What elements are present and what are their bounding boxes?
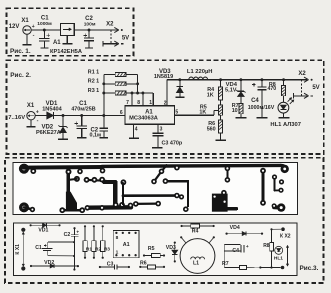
bottom-right thick trace and pads	[274, 205, 281, 209]
wire X1 to C1/A1 (fig.1)	[31, 29, 60, 31]
pad on top trace right	[174, 165, 180, 171]
svg-text:4: 4	[135, 127, 138, 133]
svg-text:1: 1	[149, 100, 152, 106]
horizontal dumbbell trace	[136, 203, 158, 205]
wire X1 to VD1 (fig.2)	[35, 115, 47, 117]
pad and stub right of centre trace	[121, 179, 127, 185]
svg-text:VD1: VD1	[38, 228, 48, 234]
svg-text:C2: C2	[85, 16, 93, 22]
square copper blob	[212, 194, 228, 212]
svg-text:L1 220µH: L1 220µH	[187, 69, 213, 75]
svg-text:К X1: К X1	[15, 244, 21, 255]
regulator A1 КР142ЕН5А (fig.1)	[60, 23, 74, 35]
L-shaped trace middle	[165, 180, 188, 182]
output rail wire L1 to X2	[208, 79, 307, 81]
svg-text:7: 7	[126, 100, 129, 106]
svg-text:0,1м: 0,1м	[89, 132, 100, 138]
diagonal trace	[154, 171, 162, 181]
LED HL1 (layout)	[275, 246, 283, 254]
ground under VD3	[175, 96, 184, 98]
svg-text:R4: R4	[192, 228, 199, 234]
Рис.3 frame	[5, 158, 324, 283]
svg-text:X1: X1	[21, 18, 29, 24]
ground under A1 (fig.1)	[66, 35, 68, 43]
pad top-right big	[281, 165, 289, 173]
svg-text:X1: X1	[27, 103, 35, 109]
svg-text:1K: 1K	[207, 93, 214, 99]
svg-text:К X2: К X2	[280, 234, 291, 240]
ground under VD2	[58, 138, 68, 140]
small L trace right	[274, 177, 276, 191]
svg-text:R8: R8	[263, 243, 270, 249]
svg-text:-: -	[33, 33, 35, 39]
svg-text:Рис. 1.: Рис. 1.	[10, 48, 31, 55]
ground under C2 (fig.1)	[85, 47, 93, 49]
svg-text:X2: X2	[106, 21, 114, 27]
node C2/R-network (fig.2)	[102, 114, 105, 117]
svg-text:X2: X2	[298, 71, 306, 77]
svg-text:HL1 АЛ307: HL1 АЛ307	[270, 122, 301, 128]
wire C4 bracket to R7 (layout)	[223, 244, 225, 267]
svg-text:5: 5	[175, 109, 178, 115]
thick L trace centre	[104, 180, 115, 184]
pad end of top-left trace	[100, 168, 106, 174]
pad X1- bottom-left	[19, 202, 29, 212]
PCB copper layout board	[13, 163, 298, 215]
ground under VD4/R7	[235, 117, 246, 119]
wire pin3 to C3	[157, 124, 159, 133]
svg-text:8: 8	[137, 100, 140, 106]
pads К X1	[21, 228, 25, 232]
svg-text:R5: R5	[148, 246, 155, 252]
svg-text:VD2: VD2	[44, 260, 54, 266]
node R8	[282, 78, 285, 81]
svg-text:470: 470	[267, 86, 276, 92]
svg-text:A1: A1	[53, 40, 61, 46]
op-amp/IC A1 MC34063A	[125, 106, 175, 124]
pad X1+ top-left	[19, 164, 29, 174]
svg-text:100м: 100м	[84, 22, 96, 28]
top copper trace	[24, 165, 102, 170]
wire pin8 stub	[142, 93, 144, 106]
Рис.2 frame	[7, 60, 324, 154]
wire pin4 to ground	[132, 124, 134, 138]
svg-text:VD4: VD4	[230, 225, 240, 231]
svg-text:R6: R6	[140, 260, 147, 266]
wire R3 to pin1 (fig.2)	[126, 92, 153, 94]
small pad near X1-	[30, 207, 35, 212]
ground under C1 (fig.2)	[77, 137, 87, 139]
svg-text:R2 1: R2 1	[88, 79, 99, 85]
left column wire R1-R3 to Vcc node	[103, 75, 105, 116]
right column wire R1-R2	[137, 75, 139, 94]
svg-text:6: 6	[120, 110, 123, 116]
inductor L1 (layout)	[180, 239, 215, 274]
IC A1 (layout)	[113, 230, 139, 257]
capacitor C3 470p	[153, 132, 164, 134]
svg-text:C3 470p: C3 470p	[162, 141, 183, 147]
svg-text:8: 8	[116, 235, 119, 241]
node C4	[260, 78, 263, 81]
ground under R6	[215, 139, 226, 141]
svg-text:КР142ЕН5А: КР142ЕН5А	[50, 49, 82, 55]
node C2 (fig.1)	[88, 29, 91, 32]
pad chain trace middle-left	[85, 180, 106, 181]
pad on vertical trace	[66, 169, 72, 175]
pad below top trace	[77, 169, 83, 175]
svg-text:-: -	[37, 118, 39, 124]
svg-text:C2: C2	[64, 232, 71, 238]
svg-text:A1: A1	[123, 242, 130, 248]
svg-text:10: 10	[232, 108, 238, 114]
svg-text:R1 1: R1 1	[88, 69, 99, 75]
svg-text:560: 560	[207, 126, 216, 132]
svg-text:1N5819: 1N5819	[154, 74, 173, 80]
svg-text:C3: C3	[107, 262, 114, 268]
node VD2	[62, 114, 65, 117]
long horizontal trace middle	[123, 194, 177, 197]
node C1 (fig.1)	[43, 29, 46, 32]
svg-text:R7: R7	[222, 261, 229, 267]
vertical trace from top trace	[66, 168, 69, 197]
bottom-left trace with pads	[62, 209, 82, 212]
svg-text:C4: C4	[251, 98, 259, 104]
svg-text:5V: 5V	[312, 85, 319, 91]
svg-text:A1: A1	[145, 109, 153, 115]
node VD3	[178, 78, 181, 81]
svg-text:12V: 12V	[9, 24, 20, 30]
pad on top trace left	[30, 168, 36, 174]
flare trace bottom	[66, 192, 76, 211]
svg-text:R3: R3	[104, 247, 110, 253]
ground under HL1	[278, 117, 289, 119]
svg-text:1N5404: 1N5404	[42, 106, 62, 112]
ground under X1 (fig.2)	[30, 120, 32, 126]
svg-text:C1: C1	[41, 15, 49, 21]
pad right of vertical trace	[74, 176, 80, 182]
svg-text:P6KE27A: P6KE27A	[36, 130, 61, 136]
wire pin1 stub	[152, 93, 154, 106]
svg-text:7..16V: 7..16V	[8, 115, 25, 121]
pads and wire К X2 (layout)	[281, 227, 285, 231]
resistor R1 (layout)	[83, 241, 87, 252]
lone pad right	[279, 179, 284, 184]
svg-text:C1: C1	[35, 245, 42, 251]
Рис.1 frame	[7, 8, 134, 56]
resistor R3 (layout)	[101, 241, 105, 252]
svg-text:1000м/16V: 1000м/16V	[248, 105, 275, 111]
svg-text:+: +	[36, 110, 39, 116]
svg-text:1000м: 1000м	[37, 21, 52, 27]
wire VD1 to A1 pin6 (fig.2)	[54, 115, 126, 117]
svg-text:1: 1	[116, 250, 119, 256]
svg-text:3: 3	[160, 126, 163, 132]
svg-text:HL1: HL1	[274, 256, 283, 262]
node C1 (fig.2)	[80, 114, 83, 117]
ground under X1 (fig.1)	[26, 34, 28, 44]
svg-text:L1: L1	[193, 260, 199, 266]
junction dots pins 7,8	[131, 92, 134, 95]
svg-text:2: 2	[164, 101, 167, 107]
bottom thick trace middle-left	[87, 205, 131, 210]
ground under C3	[152, 147, 163, 149]
node VD4	[239, 78, 242, 81]
svg-text:470м/25В: 470м/25В	[71, 106, 95, 112]
ground under C2 (fig.2)	[100, 137, 109, 139]
svg-text:1K: 1K	[199, 109, 206, 115]
vertical dumbbell right-middle	[226, 168, 228, 179]
svg-text:Рис.3.: Рис.3.	[300, 265, 319, 272]
LED HL1 АЛ307	[278, 102, 289, 113]
svg-text:+: +	[32, 24, 35, 30]
svg-text:MC34063A: MC34063A	[129, 116, 158, 122]
svg-text:Рис. 2.: Рис. 2.	[10, 72, 31, 79]
svg-text:5V: 5V	[122, 36, 129, 42]
wire to pad К X2- (layout)	[260, 267, 280, 269]
node R4	[219, 78, 222, 81]
wire pin2 stub to rail	[166, 80, 168, 106]
wire A1 to X2 (fig.1)	[74, 29, 117, 31]
output rail wire pin2 to L1	[167, 79, 307, 81]
wire pin7 stub	[131, 93, 133, 106]
svg-text:R3 1: R3 1	[88, 88, 99, 94]
svg-text:5,1V: 5,1V	[225, 87, 237, 93]
component layout board	[14, 223, 297, 275]
diode VD1 (layout)	[30, 224, 59, 226]
ground under C4	[256, 117, 267, 119]
wire К X1 with arrows	[22, 233, 24, 266]
wire pin5 to divider	[175, 114, 214, 116]
ground under C1 (fig.1)	[40, 47, 48, 49]
long vertical dumbbell right	[262, 171, 265, 203]
resistor R2 (layout)	[92, 241, 96, 252]
